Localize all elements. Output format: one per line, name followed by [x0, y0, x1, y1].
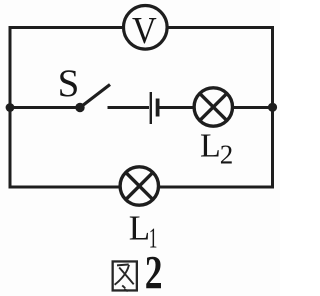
- svg-text:L: L: [200, 128, 221, 165]
- svg-text:V: V: [132, 9, 157, 51]
- svg-text:2: 2: [220, 139, 234, 169]
- svg-text:L: L: [129, 209, 150, 248]
- svg-text:2: 2: [145, 246, 163, 296]
- svg-text:S: S: [58, 62, 80, 105]
